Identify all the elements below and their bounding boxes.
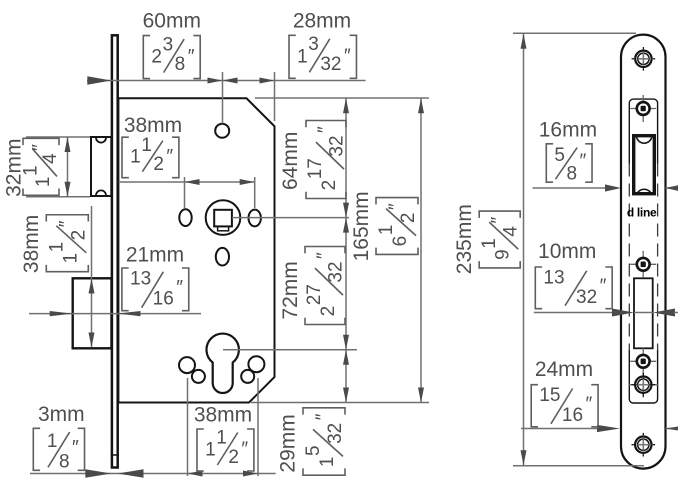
svg-text:8: 8 <box>175 54 186 75</box>
follower square spindle hole <box>214 210 232 227</box>
svg-text:165mm: 165mm <box>350 191 373 261</box>
svg-text:5: 5 <box>303 445 324 456</box>
svg-text:1: 1 <box>141 135 152 156</box>
svg-text:″: ″ <box>313 413 334 420</box>
bracket 1/8 in <box>33 428 40 470</box>
svg-text:1: 1 <box>479 238 500 249</box>
svg-text:2: 2 <box>228 447 239 468</box>
cylinder centerline <box>223 349 357 351</box>
euro cylinder profile hole <box>207 334 239 393</box>
svg-text:4: 4 <box>40 153 61 164</box>
svg-text:64mm: 64mm <box>279 132 302 190</box>
screw upper small <box>630 108 656 110</box>
witness lines bottom 38mm <box>187 378 189 476</box>
svg-text:″: ″ <box>344 46 351 67</box>
dim 10mm line <box>534 312 613 314</box>
svg-text:″: ″ <box>386 203 407 210</box>
svg-text:1: 1 <box>47 431 58 452</box>
svg-text:″: ″ <box>56 220 77 227</box>
bottom witness line y=402.5 <box>251 402 429 404</box>
svg-text:1: 1 <box>205 439 216 460</box>
svg-text:32: 32 <box>325 423 346 444</box>
dim 32mm witness lines <box>26 136 90 138</box>
svg-text:13: 13 <box>130 269 151 290</box>
svg-text:″: ″ <box>315 126 336 133</box>
svg-text:8: 8 <box>566 164 577 185</box>
follower centerline <box>232 217 349 219</box>
svg-text:8: 8 <box>59 451 70 472</box>
dim 21mm line <box>29 313 201 315</box>
dim 3mm/38mm bottom line <box>30 473 276 475</box>
dim 38mm ovals line <box>119 181 255 183</box>
top witness line y=98 <box>255 97 429 99</box>
screw top fixing <box>635 51 651 67</box>
svg-text:2: 2 <box>153 154 164 175</box>
svg-text:27: 27 <box>304 284 325 305</box>
svg-text:″: ″ <box>176 278 183 299</box>
right screw slot oval <box>249 210 261 227</box>
cylinder fixing circle left inner <box>192 370 205 383</box>
svg-text:15: 15 <box>539 385 560 406</box>
latch bolt (front view, bold) <box>634 136 655 194</box>
svg-text:6: 6 <box>390 236 411 247</box>
svg-text:24mm: 24mm <box>535 358 593 381</box>
dim 60mm/28mm line <box>87 80 366 82</box>
latch bolt bottom roller arc <box>96 190 106 195</box>
dim 235mm vertical line <box>523 34 525 466</box>
svg-text:235mm: 235mm <box>453 204 476 274</box>
bracket 2 27/32 in (rotated) <box>304 246 346 324</box>
screw lower fixing <box>635 377 651 393</box>
svg-text:38mm: 38mm <box>194 404 252 427</box>
svg-text:17: 17 <box>305 158 326 179</box>
witness line case right x <box>274 72 276 121</box>
svg-text:28mm: 28mm <box>293 10 351 33</box>
svg-text:2: 2 <box>398 213 419 224</box>
faceplate (side view, left drawing) <box>112 35 118 467</box>
bracket 15/16 in <box>531 385 538 427</box>
bracket 5/8 in <box>546 144 553 182</box>
svg-text:21mm: 21mm <box>126 244 184 267</box>
svg-text:1: 1 <box>317 457 338 468</box>
svg-text:4: 4 <box>501 226 522 237</box>
svg-text:″: ″ <box>489 217 510 224</box>
svg-text:″: ″ <box>580 151 587 172</box>
svg-text:2: 2 <box>151 47 162 68</box>
hidden cutout left dashed <box>628 164 630 351</box>
svg-text:16mm: 16mm <box>539 118 597 141</box>
faceplate bottom joint tick <box>111 454 119 456</box>
svg-text:2: 2 <box>69 230 90 241</box>
svg-text:32: 32 <box>326 135 347 156</box>
faceplate (front view, right drawing) <box>621 35 666 469</box>
screw middle small <box>630 263 656 265</box>
dim 235mm witness bottom <box>513 465 644 467</box>
dim 235mm witness top <box>513 32 636 34</box>
dim 64/72/29 vertical line <box>345 98 347 402</box>
dim 165mm vertical line <box>420 98 422 402</box>
svg-text:16: 16 <box>562 405 583 426</box>
svg-text:38mm: 38mm <box>124 114 182 137</box>
screw bottom fixing <box>635 437 651 453</box>
svg-text:32: 32 <box>320 54 341 75</box>
lower screw slot oval <box>216 248 229 266</box>
latch bolt top roller arc <box>96 138 106 143</box>
latch bottom arc <box>637 189 652 195</box>
bracket 1 1/4 in (rotated) <box>21 138 61 195</box>
latch bolt (side view) <box>91 137 111 196</box>
deadbolt cutout (front view) <box>634 278 653 348</box>
bracket 13/32 in <box>535 267 542 309</box>
svg-text:″: ″ <box>600 276 607 297</box>
svg-text:1: 1 <box>297 46 308 67</box>
bracket 1 1/2 in upper <box>122 137 129 178</box>
svg-text:1: 1 <box>130 147 141 168</box>
svg-text:5: 5 <box>554 145 565 166</box>
follower circle <box>206 200 241 235</box>
cylinder fixing circle left outer <box>179 357 195 373</box>
svg-text:″: ″ <box>314 252 335 259</box>
svg-text:3mm: 3mm <box>38 403 85 426</box>
deadbolt (side view) <box>73 278 112 348</box>
cylinder fixing circle right outer <box>248 356 264 372</box>
left screw slot oval <box>179 209 191 226</box>
svg-text:1: 1 <box>33 177 54 188</box>
inner cutout top portion <box>629 99 657 163</box>
dim 38mm deadbolt line <box>91 206 93 348</box>
svg-text:1: 1 <box>216 427 227 448</box>
svg-text:3: 3 <box>308 34 319 55</box>
screw lower fixing crosshair <box>629 384 658 386</box>
hidden cutout right dashed <box>657 164 659 351</box>
svg-text:1: 1 <box>376 225 397 236</box>
svg-text:2: 2 <box>319 180 340 191</box>
bracket 1 1/2 in (rotated) <box>46 215 89 272</box>
svg-text:38mm: 38mm <box>20 215 43 273</box>
svg-text:16: 16 <box>153 289 174 310</box>
bracket 13/16 in <box>122 268 129 311</box>
dim 32mm line <box>67 137 69 197</box>
cylinder fixing circle right inner <box>241 370 254 383</box>
screw lower small <box>630 360 656 362</box>
svg-text:9: 9 <box>493 249 514 260</box>
svg-text:″: ″ <box>166 146 173 167</box>
svg-text:″: ″ <box>241 439 248 460</box>
svg-text:1: 1 <box>21 165 42 176</box>
svg-text:10mm: 10mm <box>538 240 596 263</box>
svg-text:32: 32 <box>576 287 597 308</box>
inner cutout bottom portion <box>629 350 657 403</box>
svg-text:3: 3 <box>163 34 174 55</box>
bracket 1 1/2 in bottom <box>197 429 204 471</box>
svg-text:1: 1 <box>61 253 82 264</box>
follower clip tab <box>218 226 229 230</box>
svg-text:″: ″ <box>72 438 79 459</box>
svg-text:29mm: 29mm <box>276 414 299 472</box>
svg-text:″: ″ <box>29 144 50 151</box>
bracket 9 1/4 in (rotated) <box>479 211 522 268</box>
bracket 2 3/8 in <box>143 36 150 79</box>
svg-text:d line: d line <box>627 206 657 220</box>
svg-text:60mm: 60mm <box>143 10 201 33</box>
dim 24mm line <box>521 428 597 430</box>
lock case body outline <box>118 98 274 402</box>
bracket 1 5/32 in (rotated) <box>303 408 346 475</box>
svg-text:2: 2 <box>318 306 339 317</box>
svg-text:″: ″ <box>586 394 593 415</box>
bracket 2 17/32 in (rotated) <box>305 120 347 198</box>
bracket 6 1/2 in (rotated) <box>376 198 419 255</box>
svg-text:″: ″ <box>188 46 195 67</box>
dim 16mm line <box>533 187 608 189</box>
witness line follower x <box>222 72 224 124</box>
svg-text:13: 13 <box>543 267 564 288</box>
svg-text:72mm: 72mm <box>279 261 302 319</box>
bracket 1 3/32 in <box>289 35 296 78</box>
top fixing hole <box>215 124 229 138</box>
svg-text:32: 32 <box>325 261 346 282</box>
latch top arc <box>637 137 652 143</box>
svg-text:1: 1 <box>46 242 67 253</box>
